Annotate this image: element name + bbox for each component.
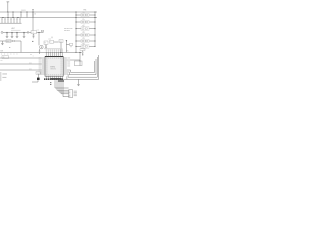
wire io left 3	[0, 68, 42, 70]
wire rail-to-rail 3	[21, 12, 22, 18]
rail VDD33 (top bus)	[0, 11, 97, 13]
gnd marks below bar	[50, 82, 51, 85]
wire below Q1	[60, 42, 63, 52]
capacitor C27 (row2)	[20, 18, 21, 24]
resistor block R5 row	[76, 38, 96, 45]
chip U1 body	[45, 56, 63, 76]
junction dots on 3V3 rail	[2, 17, 76, 18]
wire rail-to-rail 2	[13, 12, 14, 18]
ground drop left	[1, 41, 4, 45]
shunt capacitor C31	[6, 32, 9, 37]
capacitor C23 (row2)	[8, 18, 9, 24]
svg-text:10K: 10K	[83, 24, 85, 26]
capacitor C22 (row2)	[5, 18, 6, 24]
right bus of right column	[95, 12, 96, 47]
net labels under bus	[1, 54, 18, 56]
svg-text:io: io	[7, 54, 8, 56]
RF line	[3, 31, 27, 33]
note rectangle	[74, 61, 82, 66]
net label on rail A	[21, 10, 26, 12]
left edge gray bar	[0, 72, 1, 81]
box R10	[44, 41, 48, 45]
dark square	[37, 78, 40, 80]
connector J1	[69, 90, 73, 98]
component box on y41	[6, 40, 11, 43]
resistor block R4 row	[76, 32, 96, 39]
svg-text:xx: xx	[30, 54, 32, 56]
rail 3V3 second bus	[0, 17, 97, 19]
svg-text:E1: E1	[7, 41, 9, 43]
nested bus wires right of chip	[63, 55, 98, 79]
test connector U.FL	[40, 45, 44, 49]
chip right pin labels	[67, 58, 70, 67]
wire chip to x80	[67, 59, 80, 61]
tiny mark	[8, 46, 11, 49]
left text rows	[2, 73, 7, 78]
tiny box x70	[66, 43, 72, 47]
svg-text:xxxx: xxxx	[29, 68, 32, 70]
junction dots on VDD33 rail	[7, 11, 76, 12]
shunt cap after filter	[32, 34, 34, 38]
svg-text:R3x: R3x	[82, 26, 85, 28]
resistor block R1 row	[76, 12, 96, 19]
chip bottom inside labels	[46, 74, 63, 76]
ground on long wire	[77, 79, 80, 85]
wire gpio left	[0, 57, 42, 59]
wire y41	[0, 40, 21, 42]
wire corner x21	[20, 41, 22, 52]
dot on bus at x80	[79, 52, 80, 53]
tiny labels right of bus	[67, 51, 69, 53]
svg-text:io: io	[1, 54, 2, 56]
capacitor C24 (row2)	[11, 18, 12, 24]
svg-text:VDD33: VDD33	[21, 10, 26, 12]
box R11	[50, 40, 54, 43]
box above bus right	[80, 49, 86, 53]
svg-text:xxx xxxx: xxx xxxx	[64, 30, 70, 32]
svg-text:C: C	[50, 42, 51, 44]
power flag VCC33	[7, 2, 10, 12]
crystal stem	[37, 74, 39, 77]
svg-text:L1: L1	[32, 32, 34, 34]
svg-text:EN: EN	[67, 51, 69, 53]
svg-text:io: io	[13, 54, 14, 56]
dark label bar 2	[50, 78, 61, 80]
svg-text:io: io	[4, 54, 5, 56]
svg-text:R: R	[45, 43, 46, 45]
chip left inside labels	[46, 58, 48, 75]
svg-text:R4x: R4x	[82, 32, 85, 34]
svg-text:C6: C6	[34, 13, 36, 15]
svg-text:10K: 10K	[83, 17, 85, 19]
chip top pins	[46, 52, 62, 57]
mark near test conn	[32, 41, 33, 42]
shunt capacitor C34	[23, 32, 26, 37]
svg-text:xxxx: xxxx	[29, 62, 32, 64]
chip left pins	[42, 58, 45, 74]
staircase wires to connector	[55, 80, 69, 94]
chip left pin labels	[39, 58, 42, 75]
chip top inside labels	[46, 57, 63, 59]
svg-text:WROOM: WROOM	[50, 68, 55, 70]
shunt capacitor C33	[16, 32, 19, 37]
chip top pin labels	[46, 49, 63, 51]
svg-text:Q1: Q1	[60, 41, 62, 43]
series capacitor C35	[28, 31, 31, 33]
chip right pins	[63, 58, 67, 74]
chip bottom pins	[46, 76, 62, 78]
capacitor C21 (row2)	[2, 18, 3, 24]
svg-text:3V3: 3V3	[0, 50, 3, 52]
vertical wire x66.4 with arrow	[66, 40, 68, 52]
capacitor C26 (row2)	[17, 18, 18, 24]
wire to test connector	[38, 32, 40, 45]
wire io left 2	[0, 62, 42, 64]
svg-text:x xx: x xx	[37, 29, 40, 31]
tick above cluster	[51, 37, 53, 39]
chip U1 name	[50, 67, 55, 71]
dark pin-number labels row	[44, 78, 63, 80]
svg-text:xxx: xxx	[1, 60, 3, 62]
crystal wires	[40, 72, 42, 74]
resistor block R2 row	[76, 19, 96, 26]
svg-text:ANT: ANT	[12, 27, 15, 30]
box under bus left	[2, 56, 9, 59]
symbol above RF out	[37, 29, 44, 31]
ground rail under row2	[0, 22, 22, 24]
vertical wire x80 down	[80, 52, 81, 65]
chip right inside labels	[60, 58, 62, 75]
wire rail-to-rail 1	[8, 12, 9, 18]
bus wire y52.4 left	[0, 51, 82, 53]
svg-text:xxxx: xxxx	[48, 38, 51, 40]
wire VDD to RF filter	[32, 10, 34, 31]
crystal box Y1	[36, 72, 40, 75]
label above bus left	[0, 50, 3, 52]
capacitor right cluster	[82, 51, 83, 56]
RF line after filter	[37, 32, 44, 33]
net tick above vdd drop	[33, 9, 37, 15]
svg-text:io: io	[10, 54, 11, 56]
text under box J2	[1, 60, 3, 62]
dark label bar 3	[58, 80, 64, 82]
gnd below cluster	[45, 47, 47, 50]
junction dots on RF line	[6, 32, 24, 33]
note text right-mid	[64, 28, 73, 32]
svg-text:R1x: R1x	[82, 12, 85, 14]
antenna net label	[11, 27, 21, 30]
svg-text:io: io	[17, 54, 18, 56]
left bus of right column	[76, 12, 77, 53]
antenna feed circle	[1, 31, 3, 33]
svg-text:FB1: FB1	[84, 10, 87, 12]
capacitor C25 (row2)	[14, 18, 15, 24]
shunt capacitor C32	[11, 32, 14, 37]
svg-text:x: x	[33, 56, 34, 58]
wire rail-to-rail 4	[27, 12, 28, 18]
svg-text:ESP32: ESP32	[50, 67, 55, 69]
resistor block R3 row	[76, 26, 96, 33]
wire under crystal	[32, 80, 38, 82]
top pin label text row	[44, 47, 63, 50]
resistor block R6 row	[76, 43, 96, 50]
labels mid under bus	[30, 54, 34, 57]
capacitor near chip top-left	[39, 49, 40, 54]
text above cluster	[48, 38, 51, 40]
svg-text:R2x: R2x	[82, 19, 85, 21]
svg-text:R6x: R6x	[82, 43, 85, 45]
svg-text:R5x: R5x	[82, 38, 85, 40]
cap below cluster	[45, 44, 47, 47]
wire rail-to-rail 5	[33, 12, 34, 18]
connector labels	[74, 91, 77, 96]
wire x63 down	[63, 82, 69, 97]
svg-text:xxx xxx xxxx: xxx xxx xxxx	[64, 28, 73, 30]
RF filter box L1	[31, 31, 37, 34]
ticks on y41	[13, 40, 15, 41]
label above row1 box	[84, 10, 87, 12]
wire cluster to Q1	[54, 41, 59, 43]
component box Q1	[59, 40, 63, 43]
